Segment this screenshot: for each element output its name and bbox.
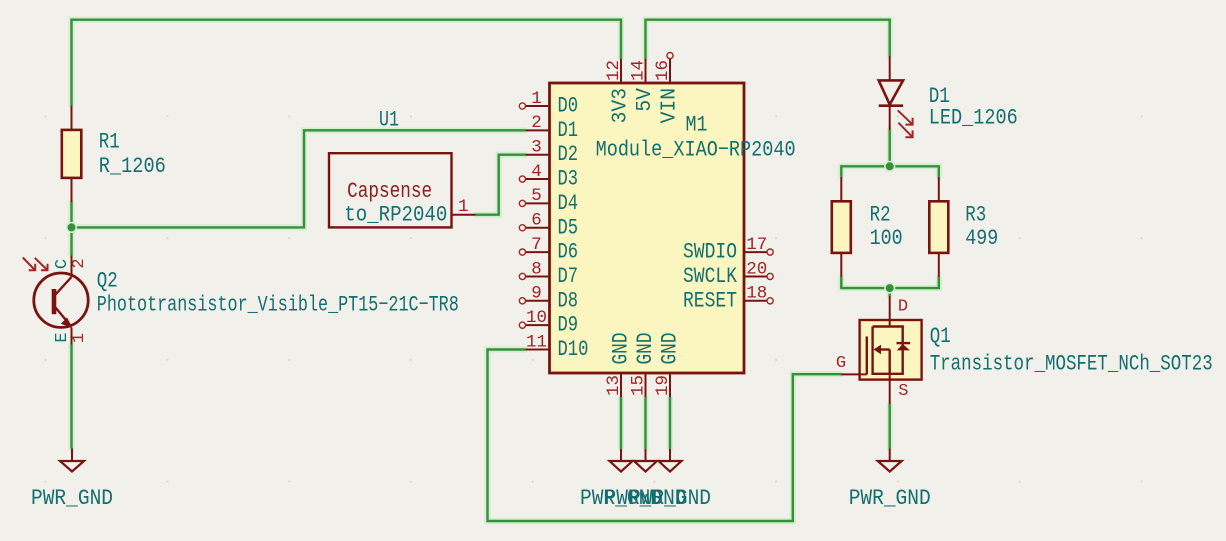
svg-text:VIN: VIN (659, 88, 682, 123)
svg-text:D1: D1 (558, 118, 579, 143)
svg-text:14: 14 (629, 60, 649, 81)
svg-text:Q1: Q1 (930, 324, 951, 349)
svg-text:RESET: RESET (683, 288, 737, 313)
pin number 1 of M1 (531, 89, 542, 109)
pin 4 (D3) of M1 (519, 176, 549, 182)
transistor Q2 (phototransistor) (23, 255, 88, 344)
value R_1206 (99, 154, 166, 179)
pin name D5 of M1 (558, 215, 579, 240)
pin 16 (VIN) of M1 (667, 53, 673, 84)
wire GND pin 19 to PWR_GND (667, 397, 673, 449)
pin name VIN of M1 (659, 88, 682, 123)
pin 7 (D6) of M1 (519, 249, 549, 255)
label PWR_GND (bottom middle) (580, 486, 662, 511)
svg-text:PWR_GND: PWR_GND (629, 486, 711, 511)
resistor R2 (832, 177, 851, 277)
wire Capsense pin 1 to D2 pin of module (476, 155, 525, 215)
resistor R3 (929, 177, 948, 277)
pin name D7 of M1 (558, 264, 579, 289)
svg-text:D5: D5 (558, 215, 579, 240)
svg-text:SWDIO: SWDIO (683, 240, 737, 265)
svg-text:D0: D0 (558, 94, 579, 119)
svg-text:R1: R1 (99, 130, 120, 155)
pin 12 (3V3) of M1 (620, 59, 622, 83)
label R2 (870, 203, 891, 228)
svg-text:Q2: Q2 (97, 269, 118, 294)
svg-text:18: 18 (746, 284, 767, 304)
svg-text:5: 5 (531, 186, 542, 206)
pin name D9 of M1 (558, 313, 579, 338)
transistor Q1 N-MOSFET (841, 296, 922, 404)
label U1 (379, 108, 399, 133)
pin 17 (SWDIO) of M1 (744, 249, 773, 255)
svg-text:R_1206: R_1206 (99, 154, 166, 179)
pin 15 (GND) of M1 (645, 373, 647, 397)
label Q1 (930, 324, 951, 349)
svg-text:G: G (836, 354, 846, 373)
wire Q2 emitter to PWR_GND (69, 345, 75, 449)
svg-text:2: 2 (531, 113, 542, 133)
wire GND pin 13 to PWR_GND (618, 397, 624, 449)
wire VCC top-left: R1 top to 3V3 pin 12 (72, 20, 622, 106)
pin number 13 of M1 (604, 375, 624, 396)
svg-text:D9: D9 (558, 313, 579, 338)
svg-text:Transistor_MOSFET_NCh_SOT23: Transistor_MOSFET_NCh_SOT23 (930, 352, 1213, 377)
svg-text:D3: D3 (558, 167, 579, 192)
label PWR_GND (bottom middle) (629, 486, 711, 511)
svg-text:100: 100 (870, 226, 903, 251)
svg-text:to_RP2040: to_RP2040 (344, 203, 447, 228)
svg-text:6: 6 (531, 211, 542, 231)
pin number 7 of M1 (531, 235, 542, 255)
svg-text:Phototransistor_Visible_PT15−2: Phototransistor_Visible_PT15−21C−TR8 (97, 292, 459, 317)
svg-text:9: 9 (531, 284, 542, 304)
resistor R1 (62, 106, 82, 203)
svg-text:5V: 5V (634, 88, 657, 112)
svg-text:D2: D2 (558, 142, 579, 167)
pin name D8 of M1 (558, 288, 579, 313)
value Phototransistor_Visible_PT15-21C-TR8 (97, 292, 459, 317)
pin 1 (D0) of M1 (519, 103, 549, 109)
svg-text:499: 499 (965, 226, 998, 251)
pin name SWCLK of M1 (683, 264, 738, 289)
svg-text:D4: D4 (558, 191, 579, 216)
svg-text:R3: R3 (965, 203, 986, 228)
pin name SWDIO of M1 (683, 240, 737, 265)
pin 10 (D9) of M1 (519, 322, 549, 328)
pin number 9 of M1 (531, 284, 542, 304)
svg-text:15: 15 (629, 375, 649, 396)
pin number 14 of M1 (629, 60, 649, 81)
svg-text:3V3: 3V3 (610, 88, 633, 123)
svg-text:13: 13 (604, 375, 624, 396)
svg-text:GND: GND (658, 333, 683, 365)
pin number 12 of M1 (604, 60, 624, 81)
svg-text:GND: GND (609, 333, 634, 365)
label PWR_GND (right) (849, 486, 931, 511)
pin number 19 of M1 (653, 375, 673, 396)
text Capsense (347, 179, 432, 204)
svg-text:S: S (898, 382, 908, 401)
pin 20 (SWCLK) of M1 (744, 273, 773, 279)
pin name GND of M1 (658, 333, 683, 365)
svg-text:Capsense: Capsense (347, 179, 432, 204)
value Module_XIAO-RP2040 (596, 137, 796, 162)
junction node R1/Q2/U1 (66, 222, 77, 233)
pin 11 (D10) of M1 (525, 349, 549, 351)
pin name RESET of M1 (683, 288, 737, 313)
label R1 (99, 130, 120, 155)
svg-text:1: 1 (458, 197, 469, 217)
wire D10 pin of module to Q1 gate (488, 350, 842, 522)
pin number 11 of M1 (526, 332, 547, 352)
pin 2 (D1) of M1 (525, 129, 549, 131)
svg-text:16: 16 (653, 60, 673, 81)
pin number 3 of M1 (531, 138, 542, 158)
wire GND pin 15 to PWR_GND (643, 397, 649, 449)
pin name GND of M1 (633, 333, 658, 365)
junction node R2/R3/Q1 drain (884, 283, 895, 294)
svg-text:D8: D8 (558, 288, 579, 313)
label D1 (929, 84, 950, 109)
value LED_1206 (929, 106, 1018, 131)
value Transistor_MOSFET_NCh_SOT23 (930, 352, 1213, 377)
pin number 15 of M1 (629, 375, 649, 396)
svg-text:D10: D10 (558, 337, 589, 362)
svg-text:2: 2 (70, 258, 89, 268)
pin number 18 of M1 (746, 284, 767, 304)
ground PWR_GND (below GND pin 13) (610, 449, 633, 472)
pin number 16 of M1 (653, 60, 673, 81)
svg-text:PWR_GND: PWR_GND (849, 486, 931, 511)
pin name D of Q1 (898, 298, 908, 317)
svg-text:1: 1 (70, 333, 89, 343)
ground PWR_GND (below GND pin 19) (659, 449, 682, 472)
label PWR_GND (left) (31, 486, 113, 511)
wire Q1 source to PWR_GND (887, 404, 893, 449)
wire R2/R3 bottom rail to Q1 drain (841, 277, 939, 295)
pin number 1 of Q2 (70, 333, 89, 343)
pin number 4 of M1 (531, 162, 542, 182)
svg-text:7: 7 (531, 235, 542, 255)
value 100 (870, 226, 903, 251)
pin name D4 of M1 (558, 191, 579, 216)
label R3 (965, 203, 986, 228)
svg-text:1: 1 (531, 89, 542, 109)
wire LED cathode to R2/R3 top node (887, 130, 893, 166)
pin name E of Q2 (53, 332, 72, 342)
pin number 17 of M1 (746, 235, 767, 255)
label Q2 (97, 269, 118, 294)
pin number 6 of M1 (531, 211, 542, 231)
pin 6 (D5) of M1 (519, 225, 549, 231)
label PWR_GND (bottom middle) (605, 486, 687, 511)
svg-text:R2: R2 (870, 203, 891, 228)
pin name D10 of M1 (558, 337, 589, 362)
svg-text:PWR_GND: PWR_GND (31, 486, 113, 511)
label M1 (686, 113, 708, 138)
pin name GND of M1 (609, 333, 634, 365)
wire 5V pin 14 to LED D1 anode (646, 20, 890, 59)
pin name G of Q1 (836, 354, 846, 373)
pin number 1 of U1 (458, 197, 469, 217)
pin number 20 of M1 (746, 259, 767, 279)
svg-text:U1: U1 (379, 108, 399, 133)
pin number 8 of M1 (531, 259, 542, 279)
wire node to D1 pin of module (net U1) (72, 130, 526, 227)
svg-text:LED_1206: LED_1206 (929, 106, 1018, 131)
svg-text:D6: D6 (558, 240, 579, 265)
pin 14 (5V) of M1 (645, 59, 647, 83)
ground PWR_GND (left) (60, 449, 84, 472)
pin name D3 of M1 (558, 167, 579, 192)
pin 3 (D2) of M1 (525, 154, 549, 156)
pin number 2 of M1 (531, 113, 542, 133)
pin name 5V of M1 (634, 88, 657, 112)
value to_RP2040 (344, 203, 447, 228)
ground PWR_GND (right) (878, 449, 902, 472)
wire R1 bottom to node / Q2 collector (69, 202, 75, 255)
module M1 Module_XIAO-RP2040 body (550, 83, 745, 373)
junction node LED/R2/R3 (884, 161, 895, 172)
grid dots (45, 115, 1143, 482)
svg-text:GND: GND (633, 333, 658, 365)
pin 9 (D8) of M1 (519, 298, 549, 304)
ground PWR_GND (below GND pin 15) (634, 449, 657, 472)
svg-text:11: 11 (526, 332, 547, 352)
pin 18 (RESET) of M1 (744, 298, 773, 304)
svg-text:17: 17 (746, 235, 767, 255)
LED D1 (879, 56, 913, 137)
svg-text:3: 3 (531, 138, 542, 158)
svg-text:D7: D7 (558, 264, 579, 289)
svg-text:Module_XIAO−RP2040: Module_XIAO−RP2040 (596, 137, 796, 162)
svg-text:20: 20 (746, 259, 767, 279)
block U1 Capsense_to_RP2040 (329, 153, 476, 227)
svg-text:8: 8 (531, 259, 542, 279)
pin name D6 of M1 (558, 240, 579, 265)
pin number 2 of Q2 (70, 258, 89, 268)
pin name D2 of M1 (558, 142, 579, 167)
pin number 10 of M1 (526, 308, 547, 328)
pin 5 (D4) of M1 (519, 200, 549, 206)
pin 13 (GND) of M1 (620, 373, 622, 397)
wire R2/R3 top rail (841, 166, 939, 177)
pin 8 (D7) of M1 (519, 273, 549, 279)
value 499 (965, 226, 998, 251)
svg-text:4: 4 (531, 162, 542, 182)
pin name D1 of M1 (558, 118, 579, 143)
pin name D0 of M1 (558, 94, 579, 119)
pin name S of Q1 (898, 382, 908, 401)
svg-text:12: 12 (604, 60, 624, 81)
pin 19 (GND) of M1 (669, 373, 671, 397)
pin number 5 of M1 (531, 186, 542, 206)
svg-text:10: 10 (526, 308, 547, 328)
pin name 3V3 of M1 (610, 88, 633, 123)
svg-text:D: D (898, 298, 908, 317)
svg-text:19: 19 (653, 375, 673, 396)
svg-text:M1: M1 (686, 113, 708, 138)
pin name C of Q2 (53, 259, 72, 269)
svg-text:SWCLK: SWCLK (683, 264, 738, 289)
